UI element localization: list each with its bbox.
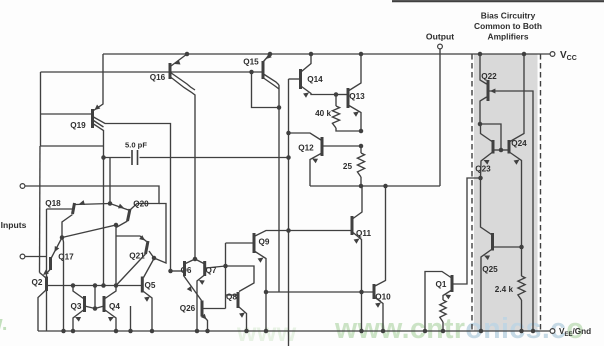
Q21 base lead (149, 251, 154, 258)
node rail Q13 (359, 52, 364, 57)
node Q6 base (168, 269, 173, 274)
node VEE rail x533 (531, 329, 536, 334)
Q8 collector lead (226, 266, 255, 292)
resistor 40k (332, 106, 339, 128)
Q13 base lead (336, 94, 347, 96)
40k top lead (335, 95, 337, 107)
Q7 base lead (206, 266, 226, 268)
wire Q21 emitter branch (116, 236, 147, 242)
node slant wire end (114, 223, 119, 228)
node Q23 emitter / Q25 collector / Q1 base (478, 176, 483, 181)
Q12 emitter lead (310, 154, 321, 187)
node Q18 collector / Q17 base (60, 235, 65, 240)
Q7 emitter arrow (199, 280, 205, 285)
wire Q18C node to rail (63, 238, 64, 332)
node VEE rail x425 (423, 329, 428, 334)
cap row right (140, 157, 289, 159)
Q9 emitter arrow (258, 258, 264, 263)
svg-text:Q17: Q17 (58, 253, 74, 262)
node VEE rail x73 (71, 329, 76, 334)
Q10 emitter lead (375, 298, 383, 332)
node rail Q16 (185, 52, 190, 57)
tail column (109, 158, 111, 204)
node Q24 emitter / Q25 base (519, 245, 524, 250)
Q3 base lead (85, 306, 96, 309)
svg-text:Q18: Q18 (45, 199, 61, 208)
top border fragment (392, 0, 604, 2)
svg-text:Output: Output (426, 32, 454, 42)
Q22 collector lead (480, 97, 487, 124)
Q5 base bar (141, 277, 144, 293)
node row A / Q10 collector (383, 184, 388, 189)
svg-text:Common to Both: Common to Both (474, 21, 542, 31)
Q12 base lead (322, 145, 361, 147)
Q1 emitter lead (443, 291, 451, 301)
node VEE rail x521.5 (519, 329, 524, 334)
Q7 collector lead (195, 259, 204, 264)
node cap row / x103 (101, 155, 106, 160)
node VEE rail x197 (195, 329, 200, 334)
svg-text:Q16: Q16 (150, 73, 166, 82)
2.4k top lead (521, 247, 523, 276)
25 top lead (360, 146, 362, 153)
Q10 collector lead (375, 186, 386, 286)
Q18 base bar (73, 203, 75, 214)
2.4k bottom lead (521, 300, 523, 331)
Q15 collector 2 lead (264, 78, 280, 89)
VEE/Gnd terminal (550, 329, 555, 334)
svg-text:Q13: Q13 (349, 92, 365, 101)
Q17 collector lead (47, 270, 51, 274)
Q15 base bar (262, 61, 265, 79)
bias box left dashed border (471, 54, 473, 331)
bias box gray background (474, 54, 538, 331)
Q24 collector lead (510, 54, 524, 142)
Q19 base bar (91, 109, 94, 128)
node VEE rail x266 (264, 329, 269, 334)
Q10 base bar (373, 284, 376, 299)
capacitor C1 right plate (137, 150, 139, 165)
node Q3/Q4 bases (93, 306, 98, 311)
resistor 2.4k (518, 276, 525, 300)
Q11 collector lead (353, 186, 362, 219)
svg-text:Q23: Q23 (475, 165, 491, 174)
input 2 terminal (20, 254, 25, 259)
svg-text:Q15: Q15 (243, 58, 259, 67)
node VEE rail x246.5 (244, 329, 249, 334)
Q11 base bar (351, 216, 354, 235)
Q18 emitter arrow (79, 200, 85, 205)
Q4 emitter arrow (108, 317, 114, 322)
node Q11 emitter / row (359, 290, 364, 295)
node rail Q14 (309, 52, 314, 57)
Q14 base lead (289, 78, 300, 80)
Q21 base bar (146, 241, 149, 254)
node Q9 emitter / output row (264, 290, 269, 295)
wire Q15 column down (278, 85, 280, 292)
node VEE rail x481 (479, 329, 484, 334)
node bias line tap (249, 70, 254, 75)
Q23 emitter arrow (484, 160, 490, 165)
node Q14 emitter / 40k top (334, 92, 339, 97)
node Q22 collector / mirror (478, 122, 483, 127)
Q11 emitter lead (353, 233, 362, 332)
Q17 base bar (49, 257, 52, 270)
Q21 emitter arrow (139, 235, 145, 240)
Q25 base lead (493, 246, 522, 248)
Q15 emitter lead (264, 54, 271, 62)
svg-text:Q5: Q5 (145, 281, 156, 290)
node Q3 collector (71, 283, 76, 288)
Q9 emitter lead (255, 252, 266, 332)
Q23 collector lead (481, 124, 493, 142)
svg-text:Q8: Q8 (226, 293, 237, 302)
Q19 collector 2 lead (94, 124, 104, 146)
Q7 emitter lead (197, 276, 204, 332)
Q4 emitter lead (105, 310, 116, 331)
node Q12 collector (286, 131, 291, 136)
Q4 base lead (95, 306, 104, 309)
wire base column x225 (225, 243, 227, 309)
node rail bias right (522, 52, 527, 57)
wire Q14 base column (288, 79, 290, 346)
wire Q18 base to Q2 (46, 209, 48, 278)
Q3 collector lead (73, 286, 84, 299)
node VEE rail x361.5 (359, 329, 364, 334)
VEE/Gnd rail (38, 330, 553, 332)
Q6 base bar (183, 261, 186, 276)
Q3 base bar (83, 296, 86, 312)
Q16 emitter arrow (175, 60, 181, 65)
40k bottom lead (336, 128, 361, 131)
node Q15 collector-base tie (277, 105, 282, 110)
Q4 collector lead (105, 286, 116, 299)
Q14 emitter arrow (303, 93, 309, 98)
Q20 collector lead (116, 221, 128, 286)
Q9 collector lead (255, 231, 330, 237)
Q7 base bar (203, 261, 206, 276)
Q21 collector lead (116, 254, 146, 286)
svg-text:Bias Circuitry: Bias Circuitry (481, 11, 536, 21)
svg-text:Q20: Q20 (133, 200, 149, 209)
svg-text:Q2: Q2 (32, 278, 43, 287)
bias box right dashed border (540, 54, 542, 331)
Q20 base bar (128, 209, 131, 221)
Q5 collector lead (144, 259, 155, 278)
Q12 base bar (321, 137, 324, 156)
Q24 emitter lead (510, 153, 522, 248)
Q3 emitter lead (73, 310, 84, 331)
node mirror bases (499, 148, 504, 153)
svg-text:40 k: 40 k (315, 109, 331, 118)
Q9 base bar (253, 233, 256, 253)
Q22 emitter lead (480, 54, 487, 84)
Q6 collector lead (186, 259, 196, 264)
Q16 collector 1 lead (171, 73, 196, 91)
Q16 collector 2 lead (171, 77, 196, 259)
Q25 collector lead (481, 178, 492, 235)
Q13 base bar (347, 88, 350, 108)
Q22 base arrow (490, 88, 495, 93)
svg-text:Q9: Q9 (259, 238, 270, 247)
Q5 emitter arrow (144, 297, 150, 302)
input 1 terminal (20, 184, 25, 189)
node Q16 collector fan (193, 257, 198, 262)
Q18 collector lead (62, 215, 73, 238)
node 40k bottom / Q13 emitter (359, 129, 364, 134)
svg-text:2.4 k: 2.4 k (495, 285, 514, 294)
resistor Q1 emitter (440, 300, 446, 322)
Q2 base bar (45, 277, 48, 292)
Q22 base bar (487, 80, 490, 101)
Q16 emitter lead (171, 54, 187, 66)
svg-text:w.: w. (0, 313, 7, 335)
Q25 emitter lead (481, 250, 492, 332)
Q6 base lead (171, 270, 184, 272)
bias column x103 down (103, 146, 105, 286)
Q26 base bar (201, 301, 204, 317)
svg-text:Q12: Q12 (298, 144, 314, 153)
node VEE rail x383 (381, 329, 386, 334)
Q2 collector lead (38, 290, 46, 331)
node rail Q15 (268, 52, 273, 57)
wire Q15 base-collector tie (252, 72, 280, 108)
Q25 emitter arrow (484, 256, 490, 261)
Q12 emitter arrow (312, 159, 318, 164)
Q11 base lead (330, 230, 351, 232)
Q18 emitter lead (76, 204, 111, 205)
wire slanted tie (62, 225, 116, 238)
input 2 wire (25, 256, 47, 258)
node VEE rail x116 (114, 329, 119, 334)
wire stub x130 (130, 306, 132, 331)
Q10 emitter arrow (375, 303, 381, 308)
Q1 base lead (452, 178, 481, 284)
input 1 wire (25, 186, 159, 210)
node VEE rail x443 (441, 329, 446, 334)
node input pair emitters (108, 201, 113, 206)
Q19 emitter lead (94, 54, 104, 111)
output wire down (439, 49, 441, 186)
Q15 emitter arrow (266, 53, 272, 59)
Q20 emitter arrow (118, 204, 124, 209)
Q19 emitter arrow (95, 105, 101, 110)
Q26 emitter lead (203, 316, 208, 332)
svg-text:Q25: Q25 (482, 265, 498, 274)
Q8 base bar (237, 292, 240, 308)
node cap right (286, 155, 291, 160)
svg-text:Q3: Q3 (71, 302, 82, 311)
Q17 emitter arrow (55, 246, 60, 252)
node VEE rail x207.5 (205, 329, 210, 334)
Q25 base bar (491, 233, 494, 251)
Q1 emitter resistor bottom (442, 322, 444, 331)
Q6 emitter lead (184, 276, 202, 301)
Q22 base lead (489, 91, 533, 331)
svg-text:Q19: Q19 (70, 121, 86, 130)
Q8 emitter arrow (239, 313, 245, 318)
wire output row (310, 185, 440, 187)
bias line y72 (41, 71, 264, 73)
Q2 emitter arrow (43, 270, 49, 275)
wire Q3/Q4 base column (94, 286, 96, 309)
node VEE rail x63.5 (61, 329, 66, 334)
Q1 emitter arrow (445, 295, 451, 300)
node second stage (286, 228, 291, 233)
Q2 emitter lead (40, 273, 47, 279)
Q14 emitter lead (302, 87, 337, 95)
node Q5 collector / Q21 base (152, 256, 157, 261)
Q19 collector middle stroke (94, 121, 104, 128)
svg-text:Q24: Q24 (511, 139, 527, 148)
svg-text:Amplifiers: Amplifiers (488, 32, 529, 42)
wire mirror base feed (481, 124, 502, 150)
Q23 base lead (493, 149, 509, 151)
svg-text:Q26: Q26 (180, 304, 196, 313)
svg-text:Q14: Q14 (307, 75, 323, 84)
Q8 base lead (226, 294, 237, 296)
Q20 emitter lead (110, 204, 129, 211)
Q13 collector lead (349, 54, 361, 91)
Q1 base bar (451, 275, 454, 292)
Output terminal (438, 44, 443, 49)
Q23 emitter lead (481, 153, 493, 179)
Q16 base bar (169, 63, 172, 79)
Q13 emitter arrow (353, 112, 359, 117)
svg-text:5.0 pF: 5.0 pF (125, 141, 147, 150)
svg-text:25: 25 (343, 162, 353, 171)
VCC terminal (550, 52, 555, 57)
Q1 collector lead (425, 272, 451, 332)
node Q4 collector (114, 283, 119, 288)
Q24 emitter arrow (514, 160, 520, 165)
Q14 base bar (299, 69, 302, 89)
input 1 wire extension (154, 204, 166, 264)
svg-text:Q1: Q1 (436, 280, 447, 289)
Q3 emitter arrow (75, 317, 81, 322)
node rail bias left (478, 52, 483, 57)
node row A / 25 bottom (359, 184, 364, 189)
Q13 emitter lead (349, 106, 361, 132)
Q18 base lead (47, 208, 73, 210)
wire Q2 bar to rail (46, 291, 48, 331)
svg-text:Q4: Q4 (109, 302, 120, 311)
Q10 base lead (266, 291, 373, 293)
node VEE rail x130.5 (128, 329, 133, 334)
Q19 collector 1 lead (94, 117, 171, 271)
Q11 emitter arrow (354, 239, 360, 244)
Q4 base bar (103, 296, 106, 312)
25 bottom lead (360, 177, 362, 186)
node Q12 base (359, 144, 364, 149)
Q12 collector lead (289, 133, 322, 140)
Q24 base bar (508, 140, 511, 154)
bias column x40 lower (39, 146, 42, 273)
capacitor C1 left plate (131, 150, 133, 165)
Q23 base bar (492, 140, 495, 154)
resistor 25 (357, 153, 364, 177)
node base row / column (93, 283, 98, 288)
node Q7 base / Q9 base / Q8 (223, 264, 228, 269)
bias column x40 (41, 72, 104, 146)
Q15 collector 1 lead (264, 74, 280, 85)
Q14 collector lead (302, 54, 312, 72)
Q17 emitter lead (52, 238, 63, 258)
Q6 emitter arrow (187, 286, 192, 292)
wire Q19 base (41, 113, 92, 115)
Q9 base lead (226, 242, 253, 244)
svg-text:Inputs: Inputs (1, 220, 27, 230)
svg-text:www.cntronics.co: www.cntronics.co (334, 313, 584, 345)
node VEE rail x152 (150, 329, 155, 334)
Q8 emitter lead (239, 307, 247, 331)
svg-text:Q22: Q22 (481, 72, 497, 81)
wire Q2 base row (47, 285, 142, 287)
Q26 emitter arrow (201, 314, 207, 320)
Q5 emitter lead (144, 292, 153, 332)
VCC rail (103, 53, 553, 55)
Q26 base lead (204, 308, 226, 310)
cap row left (104, 157, 131, 159)
node bias column end (101, 283, 106, 288)
